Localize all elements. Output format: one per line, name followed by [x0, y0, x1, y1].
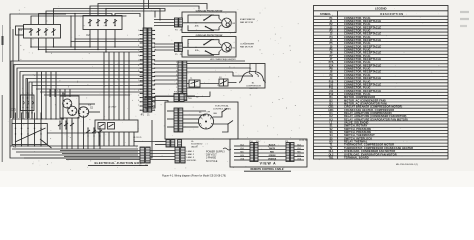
wire nest 4	[20, 72, 144, 119]
connector P10 (left, view A)	[250, 143, 254, 162]
inner contact frame evaporator	[188, 15, 214, 23]
auxiliary box left of K3	[16, 26, 24, 35]
electrical control panel enclosure	[165, 102, 238, 139]
view A enclosure	[230, 139, 307, 167]
legend row K5	[314, 142, 449, 144]
legend row J5	[314, 47, 449, 49]
legend row J7A	[314, 66, 449, 68]
wire S2 drops to bundle	[61, 118, 63, 149]
svg-text:WHI: WHI	[240, 148, 244, 150]
svg-text:6: 6	[138, 100, 139, 102]
junction dots bundle	[103, 71, 104, 72]
wire S2 leads	[79, 103, 95, 105]
svg-text:OVERLOAD PROTECTOR SW: OVERLOAD PROTECTOR SW	[196, 10, 223, 13]
legend row P10	[314, 82, 449, 84]
svg-text:CB1: CB1	[11, 109, 16, 112]
svg-text:WHI: WHI	[297, 148, 301, 150]
svg-text:LEAD 1: LEAD 1	[187, 150, 195, 153]
legend row J8	[314, 72, 449, 74]
legend row S5	[314, 139, 449, 141]
legend row J11	[314, 91, 449, 93]
wire K2 return bus 1	[75, 38, 144, 40]
svg-text:2: 2	[138, 35, 139, 37]
connector P6/J6 strip	[178, 61, 182, 95]
svg-text:J1 OR J10: J1 OR J10	[299, 140, 308, 142]
svg-text:5: 5	[138, 95, 139, 97]
cable squiggle	[223, 148, 231, 150]
thermostat T1 box	[189, 80, 195, 87]
relay K3 contact 1	[30, 29, 32, 35]
pressure switch contacts S4	[59, 121, 61, 129]
svg-text:SOLENOID: SOLENOID	[191, 144, 203, 146]
compressor motor B1	[240, 72, 266, 84]
wire nest 2	[14, 65, 144, 119]
svg-text:J4 OR J5: J4 OR J5	[133, 137, 142, 139]
legend row J10	[314, 85, 449, 87]
wire left col to K1	[15, 113, 17, 127]
connector 4	[175, 18, 179, 27]
svg-text:S2B: S2B	[88, 105, 91, 107]
relay K3 contact 2	[38, 29, 40, 35]
svg-text:OFF: OFF	[207, 112, 210, 114]
legend row P6	[314, 50, 449, 52]
svg-text:1: 1	[176, 87, 177, 89]
connector P7/J7	[174, 94, 179, 102]
wire B2 arcs	[219, 43, 221, 45]
wire to supply connector	[150, 150, 175, 152]
legend row B1	[314, 98, 449, 100]
relay K2 contact 2	[97, 20, 99, 26]
connector J10 (right, view A)	[286, 143, 290, 162]
legend row HR1	[314, 110, 449, 112]
wire CB1 column feeders	[36, 72, 38, 120]
legend row S2	[314, 129, 449, 131]
legend row J4	[314, 41, 449, 43]
connector P9/J9	[166, 140, 170, 148]
wire nest 7	[29, 82, 144, 118]
connector P7A/J7A	[178, 94, 182, 101]
svg-text:3: 3	[176, 70, 177, 72]
legend row J6	[314, 53, 449, 55]
wire to connector 4	[154, 19, 175, 21]
svg-text:ME 4706-208-34/4-1 (1): ME 4706-208-34/4-1 (1)	[396, 164, 418, 166]
wires control panel	[183, 110, 206, 112]
svg-text:4: 4	[138, 90, 139, 92]
electrical junction box enclosure	[10, 14, 152, 158]
svg-text:6: 6	[138, 55, 139, 57]
svg-text:1: 1	[138, 30, 139, 32]
wire top feeder K2-2	[98, 4, 207, 16]
legend row K2	[314, 117, 449, 119]
legend row L1	[314, 123, 449, 125]
wire top feeder K3-3	[46, 11, 155, 25]
wires compressor internal	[187, 67, 250, 69]
svg-text:T3: T3	[31, 93, 33, 95]
svg-text:4: 4	[176, 75, 177, 77]
rotary switch S1	[199, 114, 214, 129]
svg-text:VIEW A: VIEW A	[260, 161, 277, 165]
rotary switch S2 wafer 2	[68, 106, 77, 115]
legend row OL1	[314, 152, 449, 154]
legend row J2	[314, 28, 449, 30]
svg-text:EVAPORATOR: EVAPORATOR	[240, 18, 255, 21]
wire long verticals mid	[103, 52, 105, 120]
legend row J1	[314, 22, 449, 24]
svg-text:CONTROL PANEL: CONTROL PANEL	[213, 107, 232, 110]
circuit breaker CB1	[21, 95, 35, 111]
svg-text:ELECTRICAL: ELECTRICAL	[215, 105, 229, 108]
wire nest verticals lower	[49, 89, 51, 97]
wire P7 row	[155, 95, 174, 97]
svg-text:OVERLOAD PROTECTOR SW: OVERLOAD PROTECTOR SW	[196, 34, 223, 37]
svg-text:8: 8	[138, 65, 139, 67]
legend row K3	[314, 120, 449, 122]
rotary switch S2 wafer 3	[78, 107, 88, 117]
panel contact 1	[222, 109, 227, 113]
mid box relays	[98, 123, 105, 130]
legend row J3	[314, 34, 449, 36]
wire top feeder K3-4	[54, 9, 161, 25]
legend row T2	[314, 148, 449, 150]
svg-text:7: 7	[138, 60, 139, 62]
motor B3	[222, 18, 232, 28]
wire mid bundle short	[54, 46, 91, 48]
wire CB1 bottom drops	[22, 108, 24, 120]
legend row P4	[314, 37, 449, 39]
wire panel to top	[213, 112, 222, 117]
svg-text:LEAD 3: LEAD 3	[187, 156, 195, 159]
wire mid bundle to connector J1	[31, 46, 144, 48]
wire nest 3	[17, 68, 144, 118]
legend column divider	[337, 11, 339, 159]
rotary switch S2 wafer 1	[63, 99, 72, 108]
wire lower bundle 1	[47, 132, 96, 134]
wire top feeder K3-2	[39, 14, 113, 25]
svg-text:Figure 4-1. Wiring diagram (P: Figure 4-1. Wiring diagram (Power for Mo…	[162, 174, 226, 177]
relay K2 contact 4	[114, 20, 116, 26]
svg-text:DESCRIPTION: DESCRIPTION	[380, 12, 403, 16]
wire power leads	[60, 150, 140, 152]
svg-text:FAN MOTOR: FAN MOTOR	[240, 21, 253, 24]
wire nest 6	[26, 79, 144, 119]
wire strip top lead	[143, 0, 145, 28]
overload switch contacts B2	[204, 39, 213, 45]
svg-text:LEAD 2: LEAD 2	[187, 153, 195, 156]
legend row P5	[314, 44, 449, 46]
pressure switch contacts S5	[87, 128, 89, 136]
svg-text:HR1 CRANKCASE HEATER: HR1 CRANKCASE HEATER	[210, 58, 236, 61]
connector P1 strip	[143, 28, 147, 112]
legend row P11	[314, 88, 449, 90]
svg-text:LEGEND: LEGEND	[375, 7, 387, 11]
wire mid box verticals	[98, 132, 100, 146]
svg-text:TB1: TB1	[329, 156, 334, 159]
wire compressor bottom	[154, 96, 178, 98]
svg-text:T1: T1	[22, 93, 24, 95]
wire K1 exit diagonal	[40, 139, 52, 148]
relay K3 contact 3	[45, 29, 47, 35]
wire mid verticals 71/75	[70, 16, 72, 47]
panel contact 2	[228, 121, 233, 125]
svg-text:3: 3	[138, 85, 139, 87]
condenser fan motor enclosure	[182, 37, 236, 58]
relay K1 armature diagonal	[15, 128, 46, 142]
rotary switch S2 enclosure	[60, 96, 79, 118]
svg-text:1: 1	[176, 62, 177, 64]
legend table frame	[314, 6, 449, 160]
legend row OL2	[314, 155, 449, 157]
connector P2/J2	[140, 147, 145, 163]
relay K3 contact 4	[53, 29, 55, 35]
wire B2 center	[183, 46, 222, 48]
legend row S4	[314, 136, 449, 138]
wire along left border	[12, 29, 14, 119]
legend row J9	[314, 79, 449, 81]
transformer box	[145, 97, 155, 108]
svg-text:K1: K1	[13, 145, 17, 149]
legend row P1	[314, 18, 449, 20]
relay K2	[83, 16, 122, 30]
svg-text:4: 4	[138, 45, 139, 47]
svg-text:ELECTRICAL JUNCTION BOX: ELECTRICAL JUNCTION BOX	[94, 161, 141, 165]
legend row P3	[314, 31, 449, 33]
svg-text:60 CYCLE: 60 CYCLE	[206, 160, 218, 163]
legend row P2	[314, 25, 449, 27]
svg-text:MOTOR: MOTOR	[250, 88, 258, 90]
wire k1 drops	[15, 139, 17, 146]
wire B3 arcs	[219, 19, 221, 21]
legend row P7A	[314, 63, 449, 65]
scan artifact left edge	[2, 25, 4, 62]
connector P8/J8	[174, 108, 178, 132]
legend row K1	[314, 114, 449, 116]
wire nest 8	[32, 86, 144, 119]
wire top feeder K2-1	[90, 6, 199, 16]
motor B2	[222, 43, 232, 53]
wire K2 return bus 2	[71, 41, 144, 43]
relay K2 contact 1	[89, 20, 91, 26]
connector J1 strip	[148, 28, 152, 112]
svg-text:WHITE: WHITE	[269, 148, 276, 150]
view A wires	[258, 145, 286, 147]
svg-text:3: 3	[138, 40, 139, 42]
svg-text:5: 5	[138, 50, 139, 52]
wire HR1 top	[154, 60, 245, 62]
svg-text:2: 2	[176, 66, 177, 68]
svg-text:SYMBOL: SYMBOL	[320, 12, 332, 16]
svg-text:2: 2	[138, 80, 139, 82]
wire K3 left stub	[19, 28, 31, 30]
wire nest 1	[11, 61, 144, 118]
legend header	[314, 10, 449, 12]
wire top feeder K2-4	[115, 14, 140, 18]
legend row CB1	[314, 107, 449, 109]
svg-text:GREEN: GREEN	[269, 155, 276, 157]
pressure switch S3 box	[219, 79, 224, 86]
svg-text:TERMINAL BOARD: TERMINAL BOARD	[344, 155, 369, 159]
legend row S3	[314, 133, 449, 135]
compressor motor hooks	[249, 64, 252, 78]
scan bleed marks right edge	[460, 11, 469, 13]
svg-text:CONDENSER: CONDENSER	[240, 44, 254, 46]
legend row P12	[314, 95, 449, 97]
svg-text:FAN MOTOR: FAN MOTOR	[240, 46, 253, 49]
legend row P9	[314, 75, 449, 77]
overload switch contacts B3	[204, 15, 213, 21]
svg-text:RED: RED	[270, 151, 275, 153]
wire lower crossbar	[12, 118, 64, 120]
svg-text:7: 7	[138, 105, 139, 107]
connector P1/J1 pins	[140, 29, 143, 31]
wire to L1	[155, 141, 166, 143]
legend row P7	[314, 56, 449, 58]
wire nest 5	[23, 75, 144, 118]
legend row J7	[314, 60, 449, 62]
relay K3	[24, 25, 61, 39]
wire top feeder K3-1	[31, 16, 126, 25]
svg-text:VALVE: VALVE	[191, 145, 198, 148]
svg-text:9: 9	[138, 70, 139, 72]
svg-text:BLACK: BLACK	[269, 143, 276, 146]
evaporator fan motor enclosure	[182, 12, 236, 33]
connector 5	[175, 43, 179, 52]
compressor enclosure	[185, 64, 265, 89]
wire lower bundle 2	[10, 145, 138, 147]
wires strip to compressor	[154, 64, 178, 66]
svg-text:ORANGE: ORANGE	[268, 157, 277, 160]
svg-text:GROUND: GROUND	[187, 160, 197, 162]
wire mid box outline	[95, 120, 138, 132]
svg-text:5: 5	[176, 79, 177, 81]
svg-text:REMOTE CONTROL CABLE: REMOTE CONTROL CABLE	[250, 168, 283, 171]
legend row P8	[314, 69, 449, 71]
connector P3/J3	[175, 147, 180, 163]
legend row T1	[314, 145, 449, 147]
wire to connector 5	[154, 43, 175, 45]
legend row B2	[314, 101, 449, 103]
legend row S1	[314, 126, 449, 128]
wire K3 drops	[30, 38, 32, 47]
svg-text:6: 6	[176, 83, 177, 85]
relay K1	[12, 124, 47, 145]
svg-text:1: 1	[138, 75, 139, 77]
relay K2 contact 3	[105, 20, 107, 26]
svg-text:COMPRESSOR: COMPRESSOR	[246, 85, 262, 87]
inner contact frame condenser	[188, 40, 214, 48]
wire strip to panel	[152, 101, 168, 103]
wire B3 center	[183, 22, 222, 24]
legend row B3	[314, 104, 449, 106]
svg-text:T2: T2	[27, 93, 29, 95]
wire top feeder K2-3	[106, 9, 165, 16]
wire K2 drops	[89, 30, 91, 48]
